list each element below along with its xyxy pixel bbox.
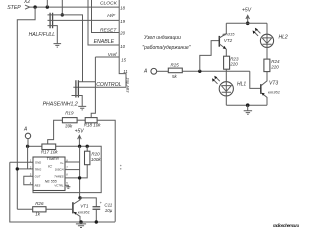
svg-text:220: 220 (229, 62, 238, 67)
svg-text:R23: R23 (230, 56, 239, 61)
wire cluster2 bottom row to ground (72, 96, 83, 107)
wire through plates to down bend (48, 15, 83, 82)
wire A column down to OUT/RES (24, 146, 33, 184)
transistor VT3 (250, 71, 261, 88)
svg-text:CLOCK: CLOCK (100, 0, 118, 6)
resistor R25 (157, 70, 169, 72)
wire top rail right (226, 22, 267, 24)
svg-text:STEP: STEP (7, 5, 21, 11)
svg-text:VCTRL: VCTRL (54, 184, 64, 188)
ground main (80, 222, 82, 224)
IC edge bus (119, 0, 126, 87)
svg-text:R19: R19 (65, 110, 74, 115)
resistor R24 (264, 59, 270, 72)
led HL1 (225, 69, 227, 82)
wire V+ row (65, 161, 80, 163)
svg-text:X2: X2 (23, 0, 30, 5)
svg-text:220: 220 (270, 64, 279, 69)
wire RESET row (92, 0, 120, 33)
ground (54, 44, 62, 48)
svg-text:19: 19 (120, 19, 125, 24)
svg-text:radioschema.ru: radioschema.ru (273, 223, 299, 228)
svg-text:39k: 39k (65, 124, 73, 129)
svg-text:VT2: VT2 (224, 38, 233, 43)
svg-text:C11: C11 (104, 203, 112, 208)
wire HL1 down (225, 96, 227, 105)
svg-text:TRIG: TRIG (35, 168, 43, 172)
wire ENABLE row (88, 0, 119, 45)
wire THRES row (65, 165, 87, 178)
svg-text:18: 18 (120, 5, 125, 10)
svg-text:11: 11 (123, 69, 128, 74)
svg-text:5k: 5k (172, 74, 178, 79)
wire A to R17 (28, 145, 42, 147)
svg-text:RESET: RESET (100, 27, 117, 33)
svg-text:GND: GND (35, 160, 41, 164)
trimmer R18 (85, 118, 97, 123)
artifact dots (120, 165, 122, 167)
svg-text:20: 20 (119, 31, 125, 36)
wire R19-R18 (77, 119, 85, 121)
capacitor C11 (93, 207, 101, 210)
junction dot (33, 5, 36, 8)
svg-text:10µ: 10µ (105, 208, 113, 213)
input chevron STEP (25, 5, 30, 9)
svg-text:DISCH: DISCH (55, 168, 65, 172)
wire VCTRL to ground (65, 185, 68, 186)
svg-text:TIMER: TIMER (46, 156, 59, 161)
wire H/F row (48, 19, 120, 21)
wire DISCH row (65, 169, 80, 171)
ground right (247, 105, 249, 110)
svg-text:HL1: HL1 (237, 82, 246, 88)
svg-text:Упр.АВ3: Упр.АВ3 (126, 78, 130, 94)
svg-text:R18 10k: R18 10k (84, 123, 102, 128)
svg-text:1k: 1k (35, 212, 41, 217)
wire to ground (48, 26, 58, 44)
capacitor cluster plates (50, 13, 53, 28)
wire R19 left to R17 wiper (48, 120, 63, 144)
svg-text:Узел индикации: Узел индикации (144, 35, 181, 41)
wire GND row (10, 162, 115, 222)
wire bottom rail right (226, 104, 267, 106)
resistor R19 (62, 118, 77, 123)
ground (66, 187, 70, 189)
resistor R20 (86, 146, 88, 151)
wire node B (80, 198, 96, 207)
svg-text:V+: V+ (60, 161, 64, 165)
wire CONTROL row (73, 86, 126, 88)
svg-text:100k: 100k (91, 157, 102, 162)
wire stub up (46, 0, 48, 7)
wire Vref row (95, 56, 119, 58)
svg-text:PHASE/INH1,2: PHASE/INH1,2 (43, 101, 78, 107)
svg-text:A: A (23, 126, 28, 132)
transistor VT1 (72, 202, 74, 213)
svg-text:VT1: VT1 (80, 204, 89, 209)
svg-text:HL2: HL2 (279, 34, 288, 40)
svg-text:кт361: кт361 (78, 210, 90, 215)
wire CLOCK row (30, 6, 120, 8)
svg-text:R25: R25 (171, 63, 180, 68)
svg-text:HALF/FULL: HALF/FULL (29, 32, 56, 38)
svg-text:R17 10k: R17 10k (41, 150, 59, 155)
wire cluster2 top row (78, 81, 95, 83)
svg-text:THRES: THRES (54, 175, 64, 179)
svg-text:A: A (143, 68, 148, 74)
svg-text:R26: R26 (35, 201, 44, 206)
svg-text:H/F: H/F (107, 13, 116, 19)
junction dots bottom rail (79, 220, 82, 223)
svg-text:10: 10 (120, 44, 125, 49)
wire stub up (61, 0, 63, 15)
svg-text:RES: RES (35, 184, 41, 188)
led HL2 (266, 23, 268, 34)
wire V+/DISCH vertical (79, 146, 81, 198)
svg-text:"работа/удержание": "работа/удержание" (142, 45, 191, 51)
svg-text:OUT: OUT (35, 175, 41, 179)
junction dot (61, 13, 64, 16)
timer IC NE555 (33, 157, 65, 191)
wire +5V rail (33, 146, 101, 192)
capacitor cluster2 plates (76, 80, 79, 97)
wire TRIG row (17, 168, 33, 170)
svg-text:+5V: +5V (242, 7, 252, 13)
svg-text:Vref: Vref (108, 52, 117, 58)
svg-text:кт315: кт315 (223, 32, 236, 37)
svg-text:IC: IC (48, 164, 52, 169)
transistor VT2 (218, 36, 220, 47)
junction dot node B (78, 196, 81, 199)
svg-text:15: 15 (121, 58, 126, 63)
svg-text:ENABLE: ENABLE (94, 39, 115, 45)
svg-text:VT3: VT3 (269, 80, 278, 86)
resistor R23 (224, 56, 230, 69)
svg-text:+5V: +5V (75, 128, 85, 134)
ground (78, 106, 86, 110)
svg-text:кт361: кт361 (268, 90, 280, 95)
resistor R26 (33, 207, 46, 212)
R18 wiper to Vref (91, 57, 95, 118)
junction dot (46, 5, 49, 8)
wire VT2 base staircase (200, 41, 220, 72)
svg-text:CONTROL: CONTROL (96, 82, 121, 88)
svg-text:R20: R20 (91, 151, 100, 156)
wire R18 right down (97, 120, 115, 222)
wire node A2 (182, 70, 250, 72)
wire left rail from STEP (17, 7, 35, 209)
trimmer R17 (42, 144, 56, 150)
